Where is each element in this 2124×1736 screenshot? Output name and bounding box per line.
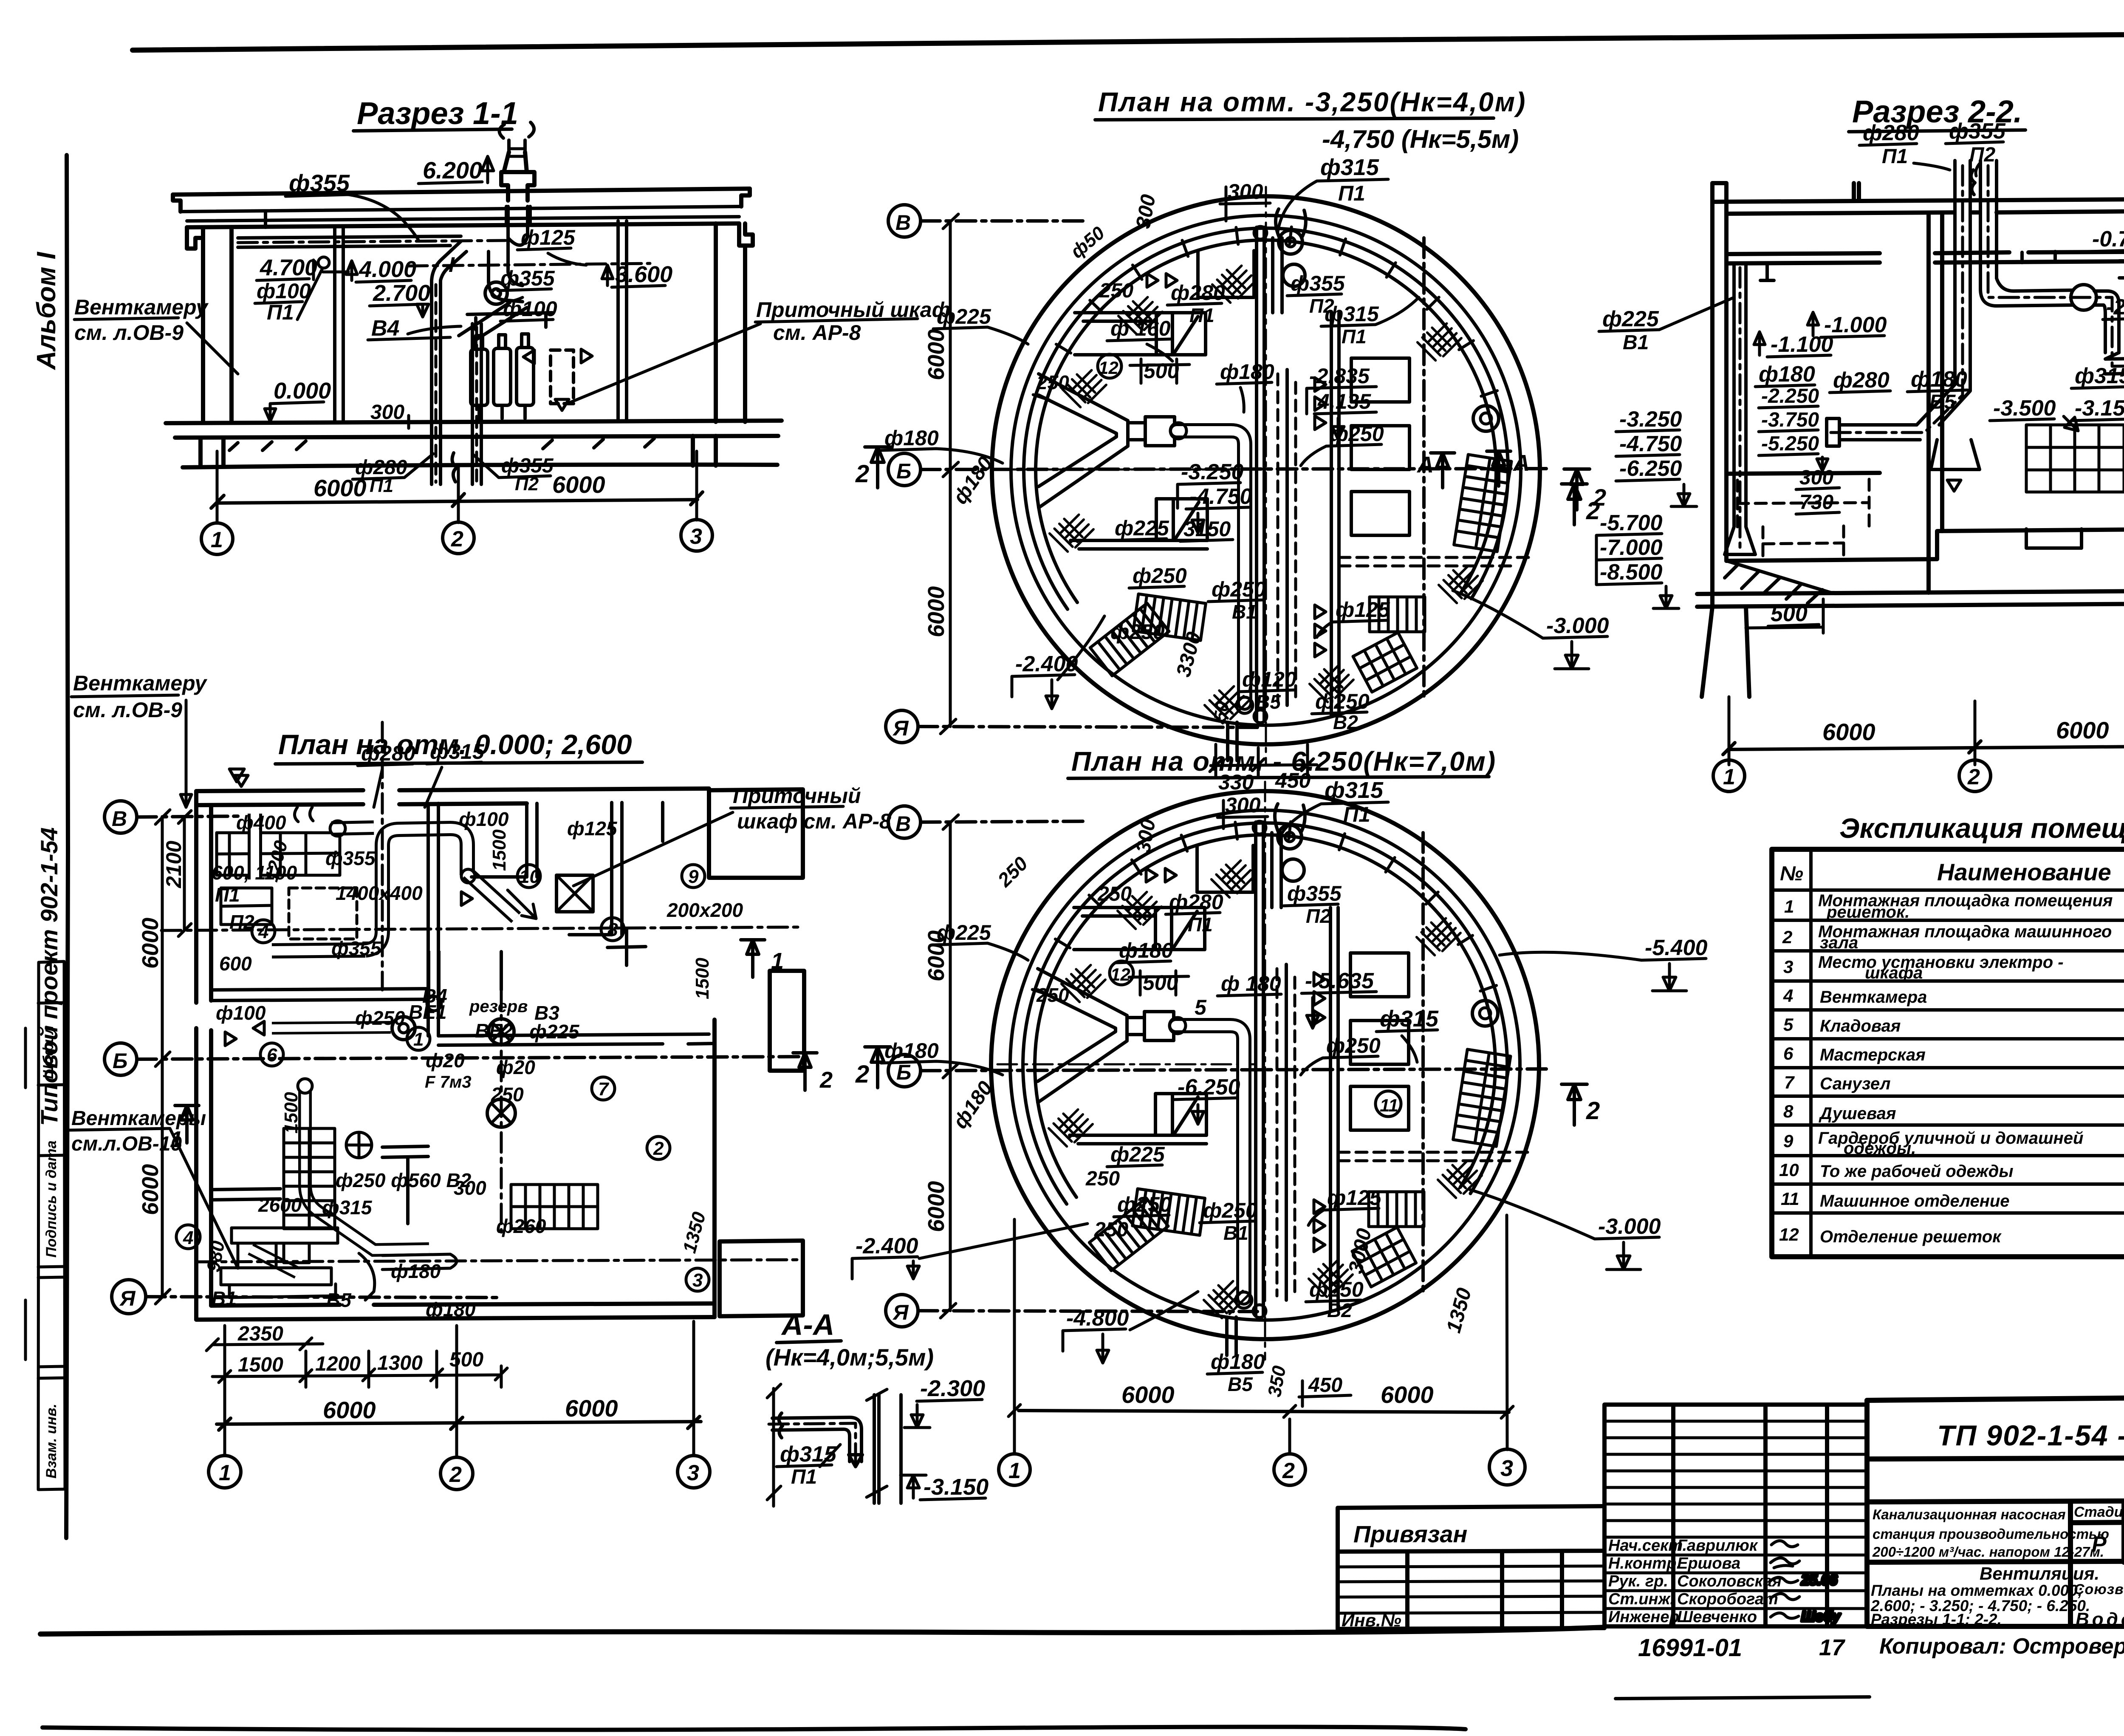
svg-text:500: 500 [1144, 359, 1179, 383]
svg-text:ф100: ф100 [257, 279, 311, 303]
svg-text:-3.250: -3.250 [1181, 460, 1244, 484]
svg-text:Венткамера: Венткамера [1820, 988, 1927, 1007]
svg-text:1500: 1500 [238, 1354, 283, 1376]
svg-text:П2: П2 [1306, 905, 1331, 927]
svg-text:-4.750: -4.750 [1619, 432, 1682, 456]
svg-text:ф250: ф250 [1203, 1199, 1257, 1222]
svg-text:Взам. инв.: Взам. инв. [43, 1404, 59, 1479]
svg-text:4: 4 [183, 1227, 193, 1248]
svg-text:5: 5 [1783, 1015, 1794, 1035]
svg-text:1: 1 [1008, 1459, 1021, 1483]
svg-text:250: 250 [1085, 1168, 1120, 1190]
svg-text:12: 12 [1779, 1224, 1799, 1244]
svg-text:Рук. гр.: Рук. гр. [1608, 1572, 1668, 1590]
svg-text:В5: В5 [1228, 1373, 1253, 1395]
svg-text:6000: 6000 [2056, 717, 2109, 744]
svg-text:17: 17 [1819, 1635, 1846, 1660]
svg-text:ф100: ф100 [459, 808, 509, 830]
svg-text:2: 2 [653, 1138, 664, 1159]
svg-text:ВЕ2: ВЕ2 [475, 1020, 513, 1042]
svg-text:ф355: ф355 [325, 847, 376, 869]
svg-text:В2: В2 [1327, 1299, 1352, 1321]
svg-text:2350: 2350 [237, 1323, 283, 1345]
svg-text:-3.000: -3.000 [1598, 1214, 1661, 1239]
svg-text:ф225: ф225 [937, 921, 991, 944]
svg-text:ф280: ф280 [361, 741, 415, 765]
svg-text:Разрез 1-1: Разрез 1-1 [357, 96, 518, 131]
svg-text:Ершова: Ершова [1677, 1555, 1740, 1572]
svg-text:2100: 2100 [162, 841, 186, 888]
svg-text:6000: 6000 [323, 1397, 376, 1423]
svg-text:В2: В2 [1333, 711, 1358, 733]
svg-text:300: 300 [1225, 793, 1261, 817]
svg-text:Альбом I: Альбом I [32, 251, 61, 370]
svg-text:см. АР-8: см. АР-8 [773, 321, 861, 345]
svg-text:Кладовая: Кладовая [1820, 1017, 1901, 1035]
svg-text:Канализационная насосная: Канализационная насосная [1873, 1507, 2066, 1522]
svg-text:Союзводоканалниипроект: Союзводоканалниипроект [2074, 1581, 2124, 1597]
svg-text:ф180: ф180 [884, 426, 939, 450]
svg-text:-8.500: -8.500 [1600, 560, 1663, 585]
svg-text:4: 4 [1783, 986, 1793, 1006]
svg-text:Приточный шкаф: Приточный шкаф [756, 298, 951, 322]
svg-text:ф180: ф180 [1211, 1350, 1265, 1374]
svg-text:Разрезы 1-1; 2-2.: Разрезы 1-1; 2-2. [1871, 1611, 2002, 1628]
svg-text:300: 300 [1799, 467, 1833, 489]
svg-text:ф 160: ф 160 [1110, 317, 1171, 340]
svg-text:12: 12 [1099, 358, 1118, 378]
svg-text:1300: 1300 [377, 1352, 423, 1374]
svg-text:ф250: ф250 [1326, 1034, 1381, 1057]
svg-text:250: 250 [1036, 984, 1069, 1006]
svg-text:4: 4 [258, 922, 268, 942]
svg-text:B4: B4 [371, 316, 400, 341]
svg-text:12: 12 [1110, 964, 1130, 984]
svg-text:1500: 1500 [692, 958, 713, 999]
svg-text:Нач.сект.: Нач.сект. [1608, 1537, 1687, 1555]
svg-text:ф280: ф280 [1863, 121, 1919, 145]
svg-text:-3.500: -3.500 [1993, 396, 2056, 421]
svg-text:Н.контр.: Н.контр. [1608, 1555, 1681, 1572]
svg-text:ф355: ф355 [1291, 271, 1345, 295]
svg-text:250: 250 [1036, 371, 1069, 393]
svg-text:ф20: ф20 [496, 1056, 535, 1078]
svg-text:шкаф см. АР-8: шкаф см. АР-8 [737, 809, 891, 833]
svg-text:А: А [1512, 450, 1530, 476]
svg-text:Б: Б [896, 459, 911, 483]
svg-text:730: 730 [1799, 491, 1833, 514]
svg-text:ф125: ф125 [1327, 1186, 1382, 1210]
svg-text:1200: 1200 [315, 1353, 361, 1375]
svg-text:Шевченко: Шевченко [1677, 1608, 1757, 1626]
svg-text:Скоробогат: Скоробогат [1677, 1590, 1778, 1608]
svg-text:ф355: ф355 [1287, 882, 1342, 905]
svg-text:ф250: ф250 [1330, 422, 1384, 446]
svg-text:одежды.: одежды. [1844, 1139, 1916, 1158]
svg-text:План на отм. - 6.250(Нк=7,0м: План на отм. - 6.250(Нк=7,0м) [1071, 746, 1496, 777]
svg-text:Планы на отметках 0.000;: Планы на отметках 0.000; [1871, 1582, 2083, 1599]
svg-text:2: 2 [855, 460, 869, 488]
svg-text:-2.250: -2.250 [1761, 385, 1819, 407]
svg-text:6000: 6000 [1381, 1381, 1434, 1408]
svg-text:Санузел: Санузел [1820, 1074, 1891, 1093]
svg-text:решеток.: решеток. [1826, 903, 1909, 922]
svg-text:ф355: ф355 [500, 266, 555, 290]
svg-text:500: 500 [1143, 971, 1178, 995]
svg-text:ф315: ф315 [322, 1196, 373, 1219]
svg-text:ф180: ф180 [884, 1039, 939, 1063]
svg-text:0.000: 0.000 [274, 378, 331, 404]
svg-text:Р: Р [2092, 1532, 2107, 1557]
svg-text:П1: П1 [1882, 145, 1908, 168]
svg-text:Венткамеры: Венткамеры [71, 1107, 206, 1130]
svg-text:П1: П1 [1342, 325, 1367, 348]
svg-text:В: В [895, 211, 911, 235]
svg-text:В5: В5 [1929, 391, 1956, 413]
svg-text:ф250 ф560 В2: ф250 ф560 В2 [336, 1169, 472, 1191]
svg-text:-3.000: -3.000 [1546, 614, 1609, 638]
svg-text:1: 1 [211, 528, 223, 552]
svg-text:ф250: ф250 [1309, 1278, 1364, 1301]
svg-text:Венткамеру: Венткамеру [74, 295, 209, 319]
svg-text:1500: 1500 [489, 829, 510, 871]
svg-text:2: 2 [1593, 484, 1606, 511]
svg-text:1: 1 [1784, 896, 1794, 916]
svg-text:ф250: ф250 [1315, 690, 1370, 713]
svg-text:-7.000: -7.000 [1600, 535, 1663, 560]
svg-text:зала: зала [1820, 933, 1858, 952]
svg-text:6.200: 6.200 [423, 157, 482, 184]
svg-text:шкафа: шкафа [1865, 964, 1923, 982]
svg-text:-4.750: -4.750 [1189, 484, 1252, 509]
svg-text:F 7м3: F 7м3 [425, 1073, 472, 1091]
svg-text:6000: 6000 [552, 471, 605, 498]
svg-text:А-А: А-А [781, 1308, 834, 1341]
svg-text:ф315: ф315 [1380, 1006, 1439, 1032]
svg-text:Подпись и дата: Подпись и дата [43, 1140, 59, 1258]
svg-text:-5.400: -5.400 [1645, 936, 1708, 960]
svg-text:П2: П2 [229, 911, 254, 933]
svg-text:Монтажная площадка машинного: Монтажная площадка машинного [1818, 922, 2112, 941]
svg-text:9: 9 [688, 866, 699, 887]
svg-text:ф260: ф260 [496, 1215, 546, 1237]
svg-text:ф315: ф315 [2075, 364, 2124, 388]
svg-text:Стадия: Стадия [2074, 1504, 2124, 1520]
svg-text:резерв: резерв [469, 997, 528, 1016]
svg-text:1: 1 [1723, 765, 1735, 789]
svg-text:ф180: ф180 [1220, 360, 1274, 384]
svg-text:см. л.ОВ-9: см. л.ОВ-9 [73, 698, 182, 722]
svg-text:ВЕ1: ВЕ1 [409, 1001, 446, 1023]
svg-text:4.000: 4.000 [359, 257, 416, 282]
svg-text:см.л.ОВ-10: см.л.ОВ-10 [71, 1133, 182, 1155]
svg-text:7: 7 [598, 1079, 610, 1100]
svg-text:11: 11 [1781, 1189, 1799, 1209]
svg-text:Отделение решеток: Отделение решеток [1820, 1227, 2002, 1246]
svg-text:ф315: ф315 [1320, 155, 1379, 180]
svg-text:Инженер: Инженер [1608, 1608, 1679, 1626]
svg-text:250: 250 [1097, 883, 1132, 905]
svg-text:В: В [112, 807, 127, 831]
svg-text:Соколовская: Соколовская [1677, 1572, 1782, 1590]
svg-text:То же рабочей одежды: То же рабочей одежды [1820, 1162, 2014, 1181]
svg-text:200x200: 200x200 [667, 899, 743, 921]
svg-text:-3.150: -3.150 [924, 1474, 989, 1500]
svg-text:П1: П1 [791, 1466, 817, 1488]
svg-text:3.600: 3.600 [615, 262, 672, 287]
svg-text:7: 7 [1784, 1072, 1795, 1092]
svg-text:№: № [1780, 862, 1803, 885]
svg-text:500: 500 [449, 1349, 483, 1371]
svg-text:ф250: ф250 [1133, 564, 1187, 588]
svg-text:Венткамеру: Венткамеру [73, 671, 207, 695]
svg-text:Инв.№: Инв.№ [1342, 1610, 1401, 1630]
svg-text:ф250: ф250 [1110, 620, 1165, 644]
svg-text:ф180: ф180 [426, 1298, 476, 1320]
svg-text:Б: Б [896, 1060, 911, 1084]
svg-text:П1: П1 [1189, 304, 1215, 326]
svg-text:-5.250: -5.250 [1761, 433, 1819, 455]
svg-text:П1: П1 [1188, 913, 1213, 936]
svg-text:ф180: ф180 [1119, 939, 1173, 962]
svg-text:-6.250: -6.250 [1619, 456, 1682, 481]
svg-text:10: 10 [1779, 1160, 1799, 1180]
svg-text:ф250: ф250 [1212, 577, 1266, 601]
svg-text:6000: 6000 [1822, 718, 1875, 745]
svg-text:-2.400: -2.400 [856, 1234, 918, 1258]
svg-text:-2.835: -2.835 [1309, 364, 1370, 388]
svg-text:В: В [895, 812, 911, 836]
svg-text:В3: В3 [534, 1002, 559, 1024]
svg-text:200÷1200 м³/час. напором 12-27: 200÷1200 м³/час. напором 12-27м. [1872, 1544, 2104, 1560]
svg-text:600: 600 [219, 953, 252, 975]
svg-text:6000: 6000 [314, 475, 367, 501]
svg-text:Вентиляция.: Вентиляция. [1980, 1564, 2099, 1583]
svg-text:4.700: 4.700 [260, 255, 317, 280]
svg-text:ф355: ф355 [1949, 119, 2006, 144]
svg-text:ф315: ф315 [780, 1442, 837, 1467]
svg-text:50: 50 [1210, 700, 1233, 723]
svg-text:-3.250: -3.250 [1619, 407, 1682, 432]
svg-text:2600: 2600 [258, 1194, 302, 1216]
svg-text:станция производительностью: станция производительностью [1873, 1526, 2109, 1542]
svg-text:-1.000: -1.000 [1824, 313, 1887, 337]
svg-text:-2.400: -2.400 [1015, 652, 1078, 676]
svg-text:План на отм. -3,250(Нк=4,0м): План на отм. -3,250(Нк=4,0м) [1098, 87, 1526, 117]
svg-text:2: 2 [1586, 1097, 1600, 1125]
svg-text:Я: Я [892, 1301, 909, 1324]
svg-text:Щбфил: Щбфил [40, 1025, 56, 1079]
svg-text:300: 300 [454, 1177, 486, 1199]
svg-text:П1: П1 [215, 884, 240, 906]
svg-text:11: 11 [1380, 1095, 1398, 1115]
svg-text:П1: П1 [1338, 181, 1365, 205]
svg-text:ф225: ф225 [937, 305, 991, 328]
svg-text:2.700: 2.700 [373, 280, 430, 306]
svg-text:Машинное отделение: Машинное отделение [1820, 1192, 2010, 1210]
svg-text:6000: 6000 [138, 1164, 163, 1215]
svg-text:см. л.ОВ-9: см. л.ОВ-9 [74, 321, 184, 345]
svg-text:1400x400: 1400x400 [336, 882, 423, 904]
svg-text:9: 9 [1783, 1131, 1794, 1151]
svg-text:ф125: ф125 [521, 226, 576, 249]
svg-text:-3.150: -3.150 [2075, 396, 2124, 421]
svg-text:16991-01: 16991-01 [1638, 1634, 1742, 1662]
svg-text:ф 180: ф 180 [1221, 972, 1281, 995]
svg-text:А: А [1416, 452, 1434, 478]
svg-text:2: 2 [1967, 765, 1980, 789]
svg-text:ф100: ф100 [216, 1002, 266, 1024]
svg-text:ф100: ф100 [503, 297, 557, 321]
svg-text:ф225: ф225 [1115, 516, 1169, 540]
svg-text:-4,750 (Нк=5,5м): -4,750 (Нк=5,5м) [1322, 125, 1519, 153]
svg-text:ф315: ф315 [430, 740, 485, 763]
svg-text:ф225: ф225 [1602, 307, 1659, 331]
svg-text:6000: 6000 [924, 1181, 949, 1232]
svg-text:ф355: ф355 [331, 937, 382, 959]
svg-text:6000: 6000 [924, 329, 949, 380]
svg-text:ф355: ф355 [289, 170, 350, 196]
svg-text:ф315: ф315 [1325, 778, 1384, 803]
svg-text:300: 300 [370, 401, 404, 424]
svg-text:Ст.инж.: Ст.инж. [1608, 1590, 1675, 1608]
svg-text:ф125: ф125 [1336, 598, 1390, 622]
svg-text:3: 3 [690, 524, 702, 549]
svg-text:В1: В1 [1232, 601, 1257, 623]
svg-text:8: 8 [1783, 1101, 1794, 1121]
svg-text:3: 3 [687, 1461, 699, 1485]
svg-text:ф250: ф250 [355, 1007, 405, 1029]
svg-text:ф280: ф280 [1169, 890, 1223, 914]
svg-text:(Нк=4,0м;5,5м): (Нк=4,0м;5,5м) [765, 1344, 934, 1371]
svg-text:Водоканалпроект: Водоканалпроект [2076, 1609, 2124, 1630]
svg-text:Я: Я [119, 1286, 136, 1310]
svg-text:6: 6 [1783, 1043, 1794, 1063]
svg-text:ф280: ф280 [1171, 281, 1225, 305]
svg-text:10: 10 [519, 866, 540, 887]
svg-text:1: 1 [771, 948, 784, 974]
svg-text:5: 5 [1195, 995, 1207, 1019]
svg-text:2: 2 [451, 527, 463, 551]
svg-text:6000: 6000 [138, 918, 163, 969]
svg-text:1: 1 [413, 1029, 424, 1050]
svg-text:ф125: ф125 [567, 817, 618, 840]
svg-text:3: 3 [1783, 957, 1793, 977]
svg-text:6: 6 [267, 1045, 277, 1066]
svg-text:-1.100: -1.100 [1771, 332, 1833, 357]
svg-text:Привязан: Привязан [1353, 1521, 1467, 1547]
svg-text:250: 250 [1094, 1219, 1128, 1241]
svg-text:1: 1 [219, 1461, 231, 1485]
svg-text:6000: 6000 [1121, 1381, 1175, 1408]
svg-text:4.135: 4.135 [1317, 390, 1371, 413]
svg-text:Наименование: Наименование [1937, 859, 2111, 885]
svg-text:-2.100: -2.100 [2106, 295, 2124, 319]
svg-text:Копировал: Островерж: Копировал: Островерж [1879, 1634, 2124, 1659]
svg-text:П1: П1 [1343, 803, 1370, 826]
svg-text:Б: Б [113, 1049, 127, 1073]
svg-text:25.06: 25.06 [1801, 1572, 1838, 1588]
svg-text:2: 2 [855, 1060, 869, 1088]
svg-text:2: 2 [449, 1462, 462, 1487]
svg-text:2: 2 [819, 1067, 833, 1093]
svg-text:Я: Я [892, 716, 909, 740]
svg-text:3: 3 [692, 1270, 703, 1291]
svg-text:Гаврилюк: Гаврилюк [1677, 1537, 1758, 1555]
svg-text:ф280: ф280 [1833, 368, 1890, 393]
svg-text:6000: 6000 [924, 586, 949, 637]
svg-text:Шебу: Шебу [1801, 1609, 1841, 1625]
svg-text:- 5.635: - 5.635 [1305, 969, 1374, 993]
svg-text:ф225: ф225 [1110, 1142, 1165, 1166]
svg-text:ф20: ф20 [426, 1049, 465, 1072]
svg-text:Место установки электро -: Место установки электро - [1818, 953, 2064, 972]
svg-text:-6.250: -6.250 [1178, 1075, 1240, 1100]
svg-text:300: 300 [1228, 180, 1263, 204]
svg-text:450: 450 [1308, 1374, 1342, 1397]
svg-text:В1: В1 [1223, 1222, 1248, 1244]
svg-text:3150: 3150 [1183, 517, 1231, 541]
svg-text:ф180: ф180 [1911, 367, 1967, 392]
svg-text:ф315: ф315 [1325, 302, 1379, 326]
svg-text:ф180: ф180 [391, 1260, 441, 1282]
svg-text:-0.750: -0.750 [2092, 227, 2124, 252]
svg-text:Экспликация помещений: Экспликация помещений [1839, 812, 2124, 844]
svg-text:В5: В5 [1256, 691, 1281, 713]
svg-text:8: 8 [607, 919, 618, 940]
svg-text:6000: 6000 [565, 1395, 618, 1422]
svg-text:Мастерская: Мастерская [1820, 1046, 1926, 1064]
svg-text:-5.700: -5.700 [1600, 511, 1663, 535]
svg-text:ф180: ф180 [1759, 362, 1815, 387]
svg-text:2: 2 [1282, 1459, 1295, 1483]
svg-text:ф250: ф250 [1117, 1193, 1172, 1216]
svg-text:2: 2 [1782, 927, 1792, 947]
svg-text:ф400: ф400 [236, 811, 286, 834]
svg-text:-3.750: -3.750 [1761, 409, 1819, 431]
svg-text:ТП 902-1-54 -ОВ: ТП 902-1-54 -ОВ [1937, 1419, 2124, 1452]
svg-text:250: 250 [1099, 280, 1133, 302]
svg-text:Душевая: Душевая [1819, 1104, 1896, 1123]
svg-text:-2.300: -2.300 [920, 1376, 985, 1401]
svg-text:В1: В1 [1623, 331, 1649, 354]
svg-text:3: 3 [1500, 1456, 1513, 1481]
svg-text:П2: П2 [1969, 144, 1996, 166]
svg-text:ф120: ф120 [1242, 667, 1296, 691]
svg-text:В5: В5 [326, 1289, 352, 1311]
svg-text:1500: 1500 [281, 1092, 302, 1134]
svg-text:250: 250 [491, 1083, 524, 1105]
svg-text:-4.800: -4.800 [1066, 1306, 1129, 1331]
svg-text:500: 500 [1771, 602, 1808, 626]
